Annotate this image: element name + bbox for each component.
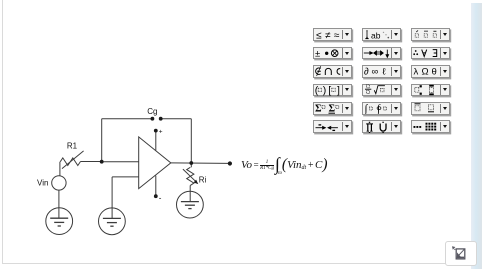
button misc symbols [362,65,401,78]
button matrix templates [411,120,450,133]
wire feedback left vertical [101,119,103,162]
button logical symbols [411,47,450,60]
svg-text:-: - [159,193,162,202]
button relational symbols [313,28,352,41]
button arrow symbols [362,47,401,60]
svg-text:Σ: Σ [329,104,336,114]
node output junction dot [189,161,193,165]
op-amp positive power pin [155,131,157,150]
button labeled arrow templates [313,120,352,133]
button summation templates [313,102,352,115]
svg-text:∫: ∫ [363,103,368,114]
wire feedback top right segment [160,118,191,120]
canvas bottom border [2,263,471,264]
button bar templates [411,102,450,115]
button greek characters [411,65,450,78]
svg-text:ab: ab [371,30,381,40]
ground G2 circle [99,208,126,235]
equation Vo [241,154,327,176]
svg-text:±: ± [315,49,320,60]
wire Vin to ground [58,190,60,218]
resistor Ri arrowhead [194,180,199,185]
resistor R1 arrow line [62,151,84,169]
wire feedback right vertical [190,119,192,163]
svg-text:Ri: Ri [199,175,207,184]
op-amp U1 triangle [139,137,171,189]
wire inverting node to op-amp [102,161,139,163]
svg-text:Σ: Σ [315,104,322,114]
svg-text:∞: ∞ [371,67,378,78]
resistor R1 zigzag [60,158,80,166]
resistor Ri arrow line [183,169,197,182]
svg-text:λ: λ [413,67,418,78]
svg-text:]: ] [337,85,340,96]
svg-text:≤: ≤ [316,30,322,41]
canvas left border [2,0,3,263]
button operator symbols [313,47,352,60]
op-amp V- pin dot [154,194,158,198]
svg-text:∫: ∫ [376,103,381,114]
corner button icon [445,241,477,266]
button fraction and radical templates [362,84,401,97]
svg-text:Cg: Cg [147,107,157,116]
svg-text:+: + [159,129,163,136]
ground G1 bars [50,218,68,226]
button embellishments [411,28,450,41]
ground G3 bars [181,202,199,209]
capacitor Cg plate dots [151,117,155,121]
svg-text:ℓ: ℓ [382,67,386,78]
resistor Ri zigzag [187,167,194,185]
svg-text:Vin: Vin [37,179,48,188]
button product templates [362,120,401,133]
wire op-amp output [171,162,228,165]
node inverting junction dot [100,160,104,164]
button fence templates [313,84,352,97]
button set theory symbols [313,65,352,78]
svg-text:Ω: Ω [421,67,428,78]
wire Ri to ground [189,185,191,201]
op-amp negative power pin [155,176,157,196]
wire non-inverting down to ground [111,177,113,219]
button integral templates [362,102,401,115]
wire output node to Ri [190,163,192,167]
svg-text:): ) [323,85,327,96]
svg-text:θ: θ [431,67,436,78]
svg-text:≠: ≠ [325,30,331,41]
svg-text:R1: R1 [67,142,78,151]
right blue strip [471,3,482,269]
wire non-inverting input horizontal [112,176,139,178]
source Vin circle [52,176,66,190]
wire R1 to inverting node [81,161,102,163]
ground G1 circle [46,208,73,235]
op-amp V+ pin dot [154,129,158,133]
svg-text:≈: ≈ [334,30,340,41]
wire R1 left terminal down to Vin [59,162,61,176]
svg-text:[: [ [328,85,331,96]
wire feedback top left segment [102,118,153,120]
svg-text:∂: ∂ [364,67,369,78]
button spaces and ellipses [362,28,401,41]
ground G2 bars [103,218,121,226]
button subscript superscript templates [411,84,450,97]
corner button [445,241,477,266]
ground G3 circle [177,191,204,218]
node output terminal dot [228,161,232,165]
